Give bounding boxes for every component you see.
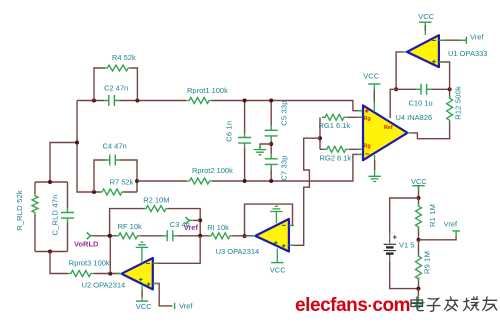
wire: U1 output to C10 node <box>396 52 403 89</box>
wire: RG1/RG2 common vertical <box>319 117 321 149</box>
node: RLD box bottom exit <box>48 250 52 254</box>
svg-text:R7 52k: R7 52k <box>110 178 134 187</box>
node: C7 bottom junction <box>269 179 273 183</box>
node: VoRLD junction <box>108 234 112 238</box>
node: C2 right junction <box>135 99 139 103</box>
svg-text:VoRLD: VoRLD <box>74 239 99 248</box>
op-amp U4 pin stub output <box>408 132 413 134</box>
node: C5/C7 midpoint <box>269 142 273 146</box>
wire: RLD to Rprot3 <box>50 252 68 274</box>
svg-text:U4 INA826: U4 INA826 <box>396 113 433 122</box>
pin stub: U1 +In green end <box>439 61 445 63</box>
ground stub: U3 top <box>275 212 277 224</box>
svg-text:Vref: Vref <box>444 220 458 229</box>
node: C10 right junction <box>448 87 452 91</box>
svg-text:U1 OPA333: U1 OPA333 <box>448 49 487 58</box>
wire: battery top gray lead <box>389 233 391 244</box>
svg-text:C5 33p: C5 33p <box>279 100 288 125</box>
wire: U1 -In to Vref tag <box>439 39 467 41</box>
wire: VoRLD tag lead <box>92 235 110 237</box>
wire: RG midpoint to U3 +In (staircase) <box>290 138 320 245</box>
pin stub: U4 +In green end <box>358 110 363 112</box>
watermark hanzi shao <box>464 297 479 311</box>
svg-text:RI 10k: RI 10k <box>207 223 229 232</box>
resistor RF 10k <box>116 233 140 239</box>
Vref tag bar (U1) <box>465 37 467 44</box>
wire: VoRLD node vertical <box>109 236 111 274</box>
resistor R9 1M <box>416 254 422 282</box>
resistor RG2 6.1k <box>324 146 348 152</box>
resistor RG1 6.1k <box>323 114 347 120</box>
node: C5 top junction <box>269 99 273 103</box>
op-amp U1 OPA333 <box>407 35 439 67</box>
watermark hanzi you <box>483 297 497 311</box>
op-amp U2 pin labels <box>139 264 150 287</box>
op-amp U2 output stub <box>118 273 122 275</box>
svg-text:Rprot2 100k: Rprot2 100k <box>192 166 233 175</box>
power stub: U2 VCC brown mid <box>141 290 143 297</box>
resistor R2 10M <box>144 206 169 212</box>
wire: ground 3 green stub <box>417 296 419 302</box>
wire: R4 branch legs <box>94 68 137 101</box>
svg-text:VCC: VCC <box>270 266 286 275</box>
Vref tag bar (U2) <box>174 303 176 309</box>
wire: C5/C7 branch <box>270 101 272 182</box>
svg-text:R_RLD 52k: R_RLD 52k <box>15 190 24 231</box>
capacitor C6 1n <box>238 133 251 148</box>
wire: RLD box left leg <box>34 182 36 252</box>
resistor R7 52k <box>100 189 125 195</box>
resistor R12 500k <box>447 96 453 123</box>
node: ground 3 junction <box>416 287 420 291</box>
wire: U2 +In to Vref tag <box>153 284 173 306</box>
ground: below U4 <box>368 176 380 181</box>
svg-text:Rprot3 100k: Rprot3 100k <box>69 259 110 268</box>
wire: VCC to V1/R1 node <box>418 186 420 198</box>
svg-text:Rg: Rg <box>364 116 371 122</box>
capacitor C4 47n <box>105 155 120 166</box>
wire: RG2 lead to U4 <box>320 148 363 150</box>
ground stub: U2 top <box>141 247 143 263</box>
svg-text:C2 47n: C2 47n <box>104 83 128 92</box>
node: V1/R1 top junction <box>417 196 421 200</box>
power stub: U4 VCC brown mid <box>373 90 375 102</box>
watermark hanzi zi <box>427 299 440 312</box>
node: R2 left junction <box>108 234 112 238</box>
wire: bottom bus (Rprot2 to U4 -In) <box>137 154 363 181</box>
ground: inverted above U2 <box>136 242 148 247</box>
svg-text:U3 OPA2314: U3 OPA2314 <box>216 247 260 256</box>
pin stub: U2 +In green end <box>153 283 159 285</box>
resistor Rprot1 100k <box>187 98 212 104</box>
svg-text:R1 1M: R1 1M <box>428 204 437 227</box>
wire: C10 node to U4 Ref pin <box>390 89 396 118</box>
svg-text:VCC: VCC <box>136 302 152 311</box>
svg-text:Ref: Ref <box>384 125 393 131</box>
node: bus1/RLD jog junction <box>75 141 79 145</box>
node: C2 left junction <box>92 99 96 103</box>
input tag Vref (mid) <box>185 217 192 224</box>
wire: R2 branch <box>110 209 201 236</box>
resistor R_RLD 52k <box>32 193 38 215</box>
wire: node to U2 -In <box>154 236 201 263</box>
wire: battery bottom gray lead <box>389 255 391 263</box>
node: Rprot2 takeoff junction <box>135 179 139 183</box>
watermark hanzi dian <box>411 297 423 311</box>
svg-text:Vref: Vref <box>179 302 193 311</box>
wire: C10 leads span <box>396 88 450 90</box>
capacitor C_RLD 47n <box>61 208 74 223</box>
capacitor C7 33p <box>265 154 278 169</box>
pin stub: U4 Rg2 green end <box>358 148 363 150</box>
Vref tag bar (V1) <box>452 231 460 237</box>
svg-text:VCC: VCC <box>363 72 379 81</box>
pin stub: U3 +In green end <box>289 244 294 246</box>
svg-text:VCC: VCC <box>411 177 427 186</box>
svg-text:R4 52k: R4 52k <box>112 53 136 62</box>
svg-text:C7 33p: C7 33p <box>279 155 288 180</box>
node: R1/R9 midpoint (Vref node) <box>417 238 421 242</box>
power stub: U4 VCC <box>373 84 375 112</box>
wire: C6 branch <box>244 101 246 182</box>
wire: RF/C3/RI line <box>112 235 254 237</box>
wire: U1 +In to C10/R12 node <box>439 62 450 89</box>
svg-text:Vref: Vref <box>470 33 484 42</box>
resistor Rprot3 100k <box>68 271 93 277</box>
wire: R9 leads <box>418 240 420 289</box>
pin stub: U1 -In green ends <box>439 39 466 41</box>
svg-text:R9 1M: R9 1M <box>422 251 431 274</box>
node: RLD box top entry <box>48 180 52 184</box>
resistor R1 1M <box>416 204 422 230</box>
power stub: V1 VCC green <box>418 186 420 191</box>
VCC bar above U1 <box>419 21 431 23</box>
pin stub: U4 Rg1 green end <box>358 116 363 118</box>
op-amp U3 pin labels <box>274 225 286 247</box>
battery V1 5 <box>384 235 397 253</box>
capacitor C2 47n <box>104 95 119 106</box>
wire: U3 -In feedback loop <box>245 204 293 236</box>
wire: jog to RLD network <box>50 143 77 183</box>
svg-text:U2 OPA2314: U2 OPA2314 <box>82 281 126 290</box>
svg-text:C3 4n: C3 4n <box>170 220 190 229</box>
wire: RG1 lead to U4 <box>322 116 363 118</box>
wire: battery top wire <box>390 198 419 233</box>
svg-text:C6 1n: C6 1n <box>225 121 234 142</box>
wire: Rprot3 to U2 output <box>93 273 120 275</box>
node: U3 input junction <box>243 234 247 238</box>
output tag VoRLD <box>87 232 94 239</box>
power stub: U2 VCC <box>141 285 143 302</box>
wire: RLD box bottom bar <box>35 251 68 253</box>
VCC bar above V1/R1 <box>412 185 424 187</box>
wire: ground 3 stub <box>417 289 419 297</box>
svg-text:C10 1u: C10 1u <box>409 99 433 108</box>
wire: Vref node to tag <box>419 237 457 240</box>
pin stub: U1 VCC brown mid <box>424 26 426 32</box>
svg-text:RG1 6.1k: RG1 6.1k <box>319 121 351 130</box>
wire: midpoint to ground 1 <box>260 144 271 150</box>
svg-text:V1 5: V1 5 <box>399 241 414 250</box>
op-amp U3 OPA2314 <box>255 219 289 252</box>
svg-text:VCC: VCC <box>418 12 434 21</box>
resistor RI 10k <box>209 233 233 239</box>
ground: inverted above U3 <box>270 206 282 211</box>
capacitor C5 33p <box>265 126 278 141</box>
wire: R1 leads <box>418 198 420 240</box>
node: RG midpoint junction <box>318 136 322 140</box>
ground stub: U4 V- brown mid <box>374 160 376 170</box>
ground stub: ground1 green <box>259 144 261 150</box>
node: C6 top junction <box>243 99 247 103</box>
wire: C4 box legs <box>94 160 137 192</box>
wire: R12 top lead <box>449 89 451 98</box>
node: U3 -In node junction <box>198 234 202 238</box>
svg-text:Rg: Rg <box>364 143 371 149</box>
VCC bar below U3 <box>271 262 283 264</box>
svg-text:C_RLD 47n: C_RLD 47n <box>51 195 60 236</box>
node: C6 bottom junction <box>243 179 247 183</box>
wire: battery bottom return <box>390 262 419 289</box>
wire: top bus (R4/C2 to Rprot1 to U4 +In) <box>77 101 363 111</box>
node: R7 box left junction <box>92 190 96 194</box>
resistor R4 52k <box>105 65 131 71</box>
power stub: U1 VCC <box>424 22 426 35</box>
svg-text:R12 500k: R12 500k <box>454 86 463 120</box>
svg-text:Rprot1 100k: Rprot1 100k <box>187 86 228 95</box>
op-amp U2 OPA2314 <box>122 258 153 289</box>
wire: Vref tag lead (mid) <box>193 219 200 221</box>
svg-text:RF 10k: RF 10k <box>118 222 142 231</box>
wire: left electrode vertical bus <box>77 101 101 193</box>
power stub: U3 VCC <box>276 249 278 263</box>
svg-text:C4 47n: C4 47n <box>103 142 127 151</box>
op-amp U4 pin labels <box>364 109 393 154</box>
op-amp U3 output stub <box>252 235 255 237</box>
svg-text:R2 10M: R2 10M <box>143 195 169 204</box>
op-amp U4 INA826 <box>363 105 408 160</box>
ground: C5/C7 midpoint <box>254 150 266 155</box>
op-amp U1 output stub <box>403 51 407 53</box>
pin stub: U3 -In green end <box>289 224 294 226</box>
pin stub: U2 -In green end <box>153 262 159 264</box>
node: Vref tag junction <box>198 218 202 222</box>
node: U2 output junction <box>108 272 112 276</box>
wire: R12 bottom to U4 output <box>411 121 450 139</box>
capacitor C3 4n <box>163 230 178 241</box>
pin stub: U4 -In green end <box>358 153 363 155</box>
op-amp U1 pin labels <box>432 40 436 63</box>
wire: RLD box top bar <box>35 181 68 183</box>
VCC bar above U4 <box>368 83 380 85</box>
capacitor C10 1u <box>416 84 431 95</box>
resistor Rprot2 100k <box>187 178 212 184</box>
VCC bar below U2 <box>136 300 148 302</box>
ground stub: U4 V- <box>374 155 376 176</box>
svg-text:elecfans·com: elecfans·com <box>295 295 410 316</box>
node: C10 left junction <box>394 87 398 91</box>
watermark hanzi fa <box>445 297 458 311</box>
svg-text:RG2 6.1k: RG2 6.1k <box>320 154 352 163</box>
ground: below R9/V1 <box>412 303 424 308</box>
wire: RLD box right leg <box>67 182 69 252</box>
